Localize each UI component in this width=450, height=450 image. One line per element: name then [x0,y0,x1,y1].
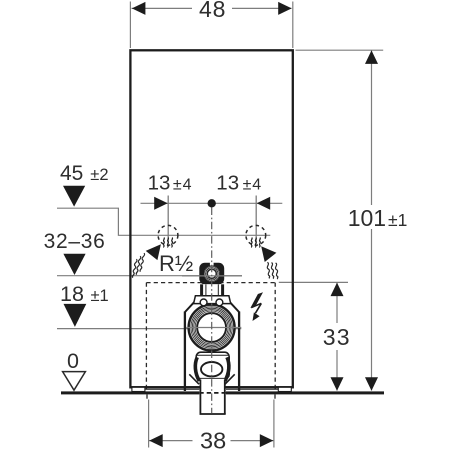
node outlet mouth [201,362,222,376]
node white notch at block top [210,261,214,265]
node center dot of 13-dim [208,199,216,207]
node datum triangle 0 (open) [63,372,86,391]
wire 13-dim line [141,202,283,204]
wire 45-level stepped leader line [57,208,270,235]
wire dashed stub below floor right [274,395,276,401]
node arrow 13 left [154,197,168,210]
node flush bend outer circle [188,304,234,350]
wire 38 extension line left [148,400,150,448]
wire flap support diagonal right [225,374,235,384]
wire body shoulder slant left [185,297,199,312]
node foot left [132,387,145,391]
wire tick left 13-dim [167,196,169,244]
wire 18-level line [57,328,241,330]
node sanitary module panel [130,50,292,387]
svg-text:±1: ±1 [91,287,109,305]
wire top-right extension line [296,49,384,51]
svg-text:±2: ±2 [90,166,108,184]
wire 48-dim extension line right [292,2,294,49]
node screw boss right [216,299,223,306]
node arrow left of 48 [132,2,146,15]
node arrow left of 38 [149,434,163,447]
wire 33 dimension line [336,282,338,323]
node outlet pipe [200,379,224,414]
node arrow bottom of 101 [365,377,378,391]
wire 33 top line [279,281,348,283]
node datum triangle 18 [64,304,87,327]
node valve shoulder bar [194,296,231,304]
node arrow top of 33 [331,283,344,297]
wire 38 dimension line [149,440,193,442]
node datum triangle 32-36 [63,254,85,275]
wire 32-36 level line [57,275,242,277]
wire vertical centerline (dash-dot) [211,208,213,414]
node flush mechanism body wall left [184,312,186,392]
node outlet flap cup [196,352,229,379]
node datum triangle 45 [63,186,85,207]
node floor line [61,391,199,394]
wire flap top inner line [197,354,229,356]
wire tick right 13-dim [255,196,257,244]
node mini squiggles in left circle [163,238,172,248]
wire floor dashes across pipe [199,392,226,394]
svg-text:48: 48 [199,0,226,22]
node fitting neck [203,284,221,296]
svg-text:101: 101 [348,205,386,231]
node flush mechanism body wall right [238,312,240,392]
svg-text:32–36: 32–36 [44,230,106,253]
wire dashed stub below floor left [146,395,148,401]
wire body shoulder slant right [226,297,240,312]
svg-text:±4: ±4 [243,177,262,194]
svg-text:±4: ±4 [173,177,192,194]
node fitting ring [204,266,220,282]
svg-text:33: 33 [323,324,351,350]
wire base plate line [145,388,199,390]
svg-text:R½: R½ [159,251,193,276]
node foot right [278,387,291,391]
node arrow 13 right [257,197,271,210]
node wavy arrow left (flexible hose) [132,244,161,278]
node flap wing right [225,357,229,381]
wire 38 extension line right [273,400,275,448]
node dashed circle left (water connection) [158,225,178,245]
wire panel bottom edge line [132,386,292,388]
wire crosshair over flush bend [186,327,241,329]
wire fitting crosshair horizontal [182,275,242,277]
wire flap support diagonal left [189,374,199,384]
wire 48-dim extension line left [129,2,131,49]
svg-text:45: 45 [60,162,83,185]
node screw boss left [200,299,207,306]
node arrow top of 101 [365,50,378,64]
svg-text:38: 38 [200,428,226,450]
node arrow bottom of 33 [331,377,344,391]
node arrow right of 48 [278,2,292,15]
node flush bend hatched ring [190,305,234,349]
node dashed circle right (water connection) [246,225,266,245]
node lightning bolt (electrical connection) [250,292,263,321]
svg-text:13: 13 [216,172,239,195]
node mini squiggles in right circle [251,238,260,248]
node arrow right of 38 [260,434,274,447]
node wavy arrow right (flexible hose) [261,246,279,279]
node flap wing left [195,357,199,381]
svg-text:0: 0 [67,349,79,373]
node water supply fitting block [199,263,224,285]
wire 101 dimension line [371,50,373,205]
svg-text:13: 13 [148,172,171,195]
node flush bend inner circle [197,313,225,341]
svg-text:18: 18 [60,282,84,306]
svg-text:±1: ±1 [388,210,407,230]
node dashed rough-in box [146,283,275,391]
wire 48 dimension line [132,7,193,9]
